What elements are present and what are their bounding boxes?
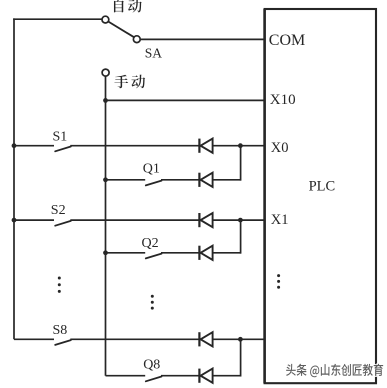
svg-text:X0: X0 bbox=[271, 140, 289, 156]
wire: S8 row to diode bbox=[70, 338, 199, 340]
wire: left supply bus bbox=[13, 18, 15, 339]
svg-text:SA: SA bbox=[145, 45, 163, 60]
ellipsis dots inside PLC bbox=[277, 274, 280, 277]
svg-text:PLC: PLC bbox=[309, 179, 336, 195]
wire: S1 row left segment bbox=[14, 145, 54, 147]
ellipsis dots manual bus column bbox=[151, 295, 154, 298]
switch S2 blade bbox=[55, 221, 71, 226]
diode on Q2 row bbox=[198, 246, 200, 260]
node: S8/Q8 junction bbox=[238, 337, 243, 342]
svg-text:X1: X1 bbox=[271, 212, 289, 228]
label 手动 (manual) bbox=[114, 75, 128, 89]
wire: Q2 diode to riser bbox=[213, 252, 241, 254]
wire: riser Q2 to node bbox=[240, 220, 242, 254]
wire: S8 row left segment bbox=[14, 338, 54, 340]
wire: SA to COM terminal bbox=[140, 38, 265, 40]
wire: node to PLC input bbox=[240, 338, 264, 340]
svg-text:X10: X10 bbox=[270, 92, 296, 108]
wire: S1 diode to node bbox=[213, 145, 241, 147]
wire: node to PLC input bbox=[240, 219, 264, 221]
PLC box bbox=[265, 9, 376, 383]
diode on S1 row bbox=[198, 139, 200, 153]
wire: Q1 diode to riser bbox=[213, 179, 241, 181]
node: S2/Q2 junction bbox=[238, 218, 243, 223]
node: junction left bus / S2 bbox=[12, 218, 17, 223]
svg-text:COM: COM bbox=[269, 32, 305, 49]
wire: Q1 row left segment bbox=[106, 179, 146, 181]
wire: riser Q1 to node bbox=[240, 146, 242, 181]
wire: S1 row to diode bbox=[70, 145, 199, 147]
diode on S8 row bbox=[198, 332, 200, 346]
PLC box left edge (thicker) bbox=[263, 9, 266, 383]
node: S1/Q1 junction bbox=[238, 143, 243, 148]
diode on Q1 row bbox=[198, 173, 200, 187]
switch S1 blade bbox=[55, 147, 71, 152]
wire: node to PLC input bbox=[240, 145, 264, 147]
wire: top wire from left bus to SA bbox=[13, 18, 102, 20]
svg-text:Q1: Q1 bbox=[143, 162, 160, 177]
switch Q8 blade bbox=[146, 377, 162, 382]
diode on Q8 row bbox=[198, 369, 200, 383]
wire: Q8 row left segment bbox=[106, 375, 146, 377]
node: junction left bus / S1 bbox=[12, 143, 17, 148]
wire: S2 row to diode bbox=[70, 219, 199, 221]
svg-text:S8: S8 bbox=[53, 323, 68, 338]
diode on S2 row bbox=[198, 213, 200, 227]
node: junction manual bus / Q1 bbox=[103, 177, 108, 182]
wire: riser Q8 to node bbox=[240, 339, 242, 376]
wire: Q1 row to diode bbox=[161, 179, 199, 181]
wire: S2 diode to node bbox=[213, 219, 241, 221]
wire: XIO wire to PLC bbox=[106, 99, 265, 101]
switch Q2 blade bbox=[146, 254, 162, 259]
node: junction on manual bus at X10 wire bbox=[103, 98, 108, 103]
switch S8 blade bbox=[55, 340, 71, 345]
watermark 头条@山东创匠教育 bbox=[286, 364, 383, 378]
wire: S2 row left segment bbox=[14, 219, 54, 221]
label 自动 (auto) bbox=[114, 0, 124, 12]
switch SA (selector), auto contact bbox=[108, 22, 134, 38]
svg-text:Q8: Q8 bbox=[143, 357, 160, 372]
svg-text:S2: S2 bbox=[51, 203, 66, 218]
svg-text:Q2: Q2 bbox=[142, 236, 159, 251]
switch Q1 blade bbox=[146, 181, 162, 186]
wire: Q8 row to diode bbox=[161, 375, 199, 377]
wire: Q8 diode to riser bbox=[213, 375, 241, 377]
node: junction manual bus / Q2 bbox=[103, 250, 108, 255]
ellipsis dots left bus column bbox=[58, 277, 61, 280]
svg-text:S1: S1 bbox=[53, 129, 68, 144]
wire: Q2 row to diode bbox=[161, 252, 199, 254]
wire: Q2 row left segment bbox=[106, 252, 146, 254]
terminal circle 手动 (manual) contact bbox=[102, 69, 109, 76]
wire: middle manual bus bbox=[105, 76, 107, 375]
wire: S8 diode to node bbox=[213, 338, 241, 340]
